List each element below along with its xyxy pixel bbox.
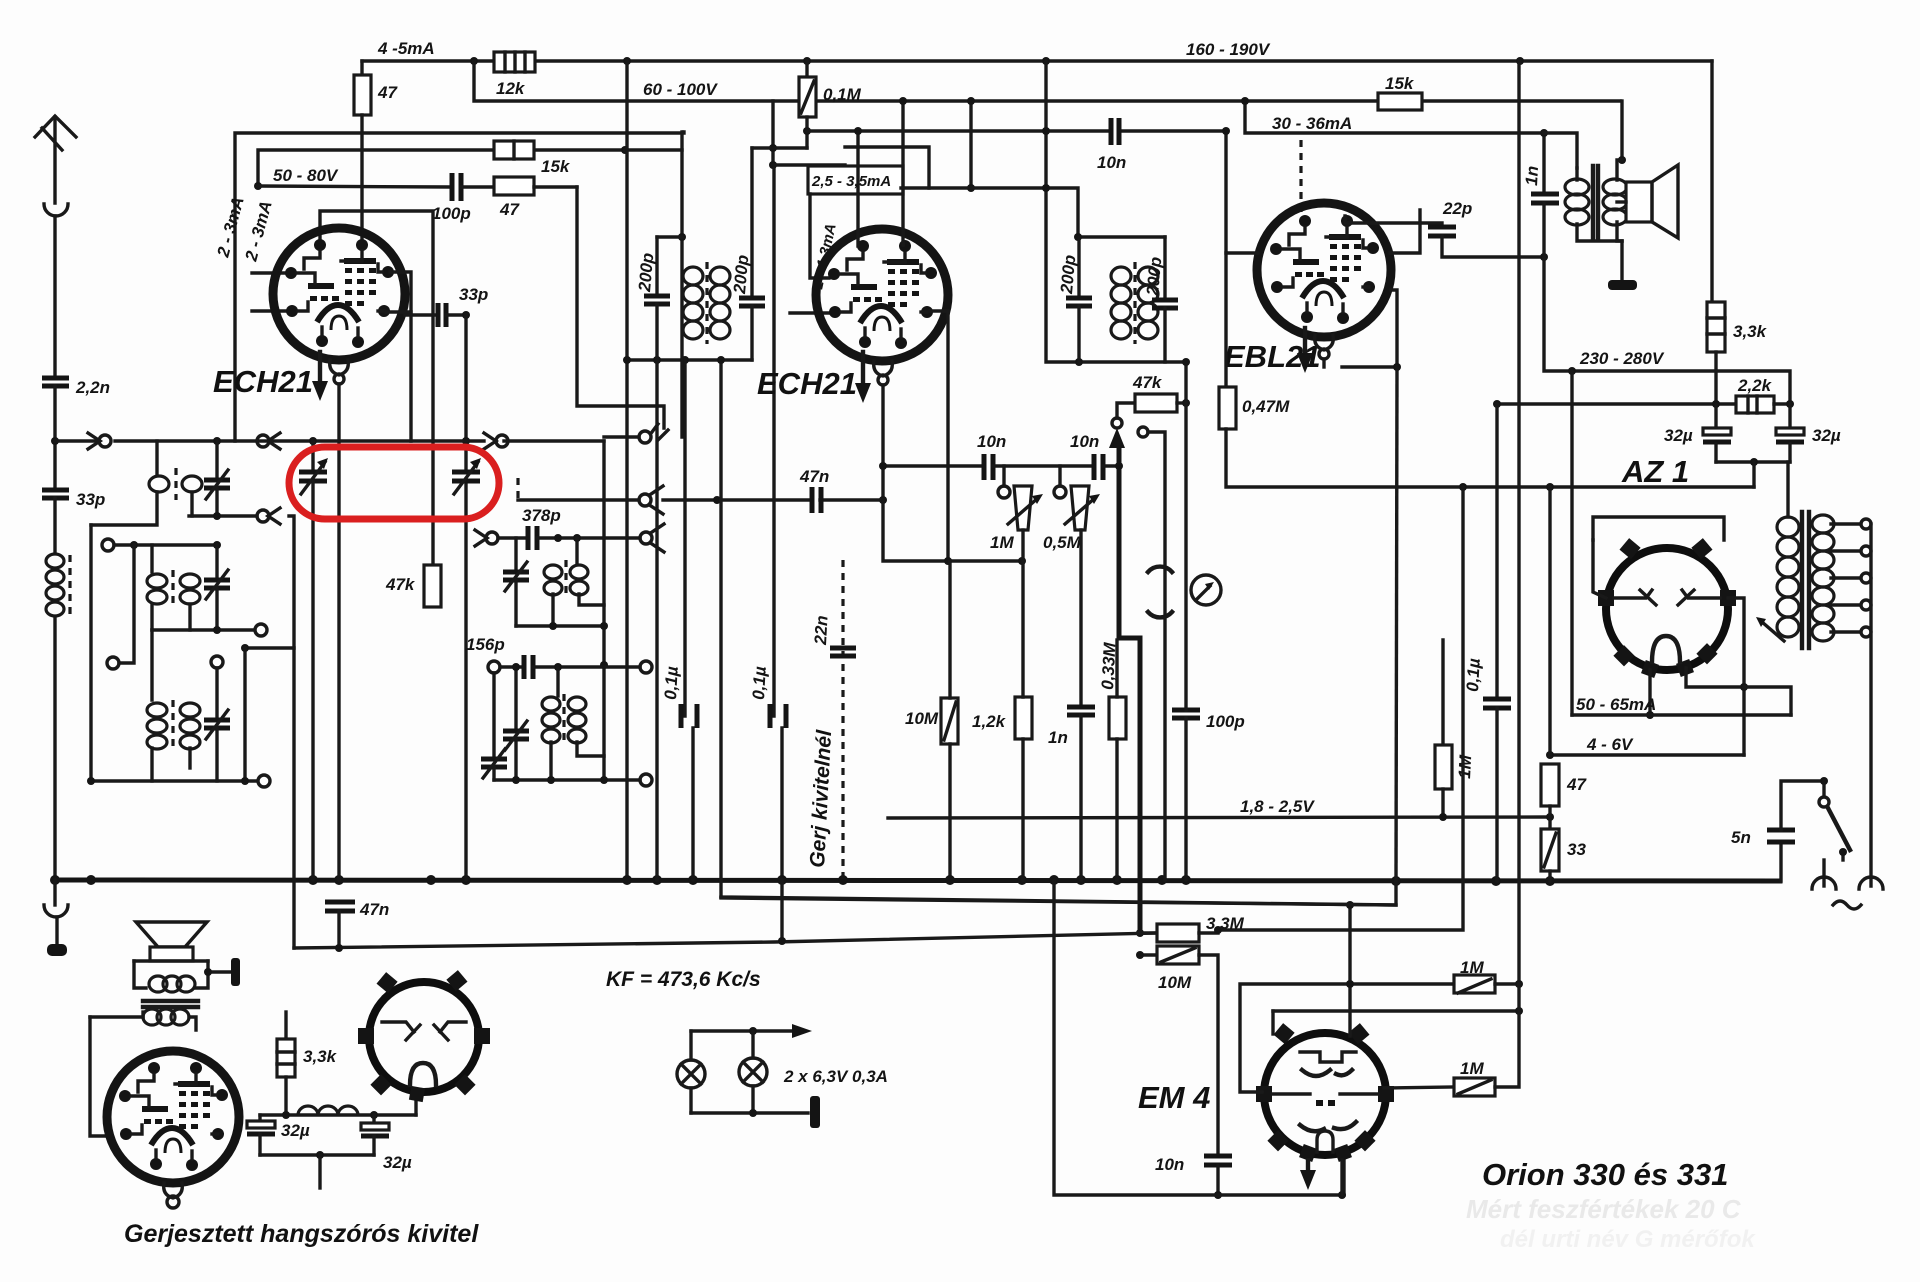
wire 47n line	[516, 478, 519, 500]
node top bus junctions	[470, 57, 478, 65]
capacitor 10n em4	[1204, 1154, 1232, 1159]
capacitor 32u d	[372, 1115, 375, 1123]
socket internals	[382, 1022, 414, 1032]
svg-text:22n: 22n	[811, 615, 832, 646]
mains terminals	[1812, 877, 1836, 889]
red highlight oval	[289, 447, 499, 519]
coil band3	[147, 703, 200, 749]
coil band1 leads	[155, 441, 158, 474]
wire OT primary feed	[1544, 133, 1577, 168]
capacitor 32u b	[1788, 404, 1791, 428]
potentiometer 1M volume	[1002, 466, 1005, 486]
svg-text:100p: 100p	[1206, 712, 1245, 731]
svg-text:10M: 10M	[905, 709, 939, 728]
tube V4 base pin	[164, 1183, 183, 1198]
wire AVC arrow	[1112, 418, 1122, 428]
svg-text:15k: 15k	[1385, 74, 1415, 93]
coil band1	[149, 476, 202, 492]
resistor 1M em4 b	[1384, 1087, 1454, 1088]
switch contact b	[257, 510, 269, 522]
svg-text:230 - 280V: 230 - 280V	[1579, 349, 1665, 368]
capacitor 10n top	[1109, 118, 1114, 145]
wire V2 top feeds	[856, 131, 859, 246]
capacitor 200p IFT1-a	[657, 235, 682, 238]
svg-text:1M: 1M	[990, 533, 1014, 552]
coil IFT1 windings	[683, 267, 730, 339]
wire osc b bottom rail	[494, 778, 640, 781]
terminal circle osc right top	[640, 661, 652, 673]
antenna symbol	[53, 117, 56, 203]
switch mains	[1822, 781, 1825, 796]
svg-text:22p: 22p	[1442, 199, 1472, 218]
tube V4 internals	[119, 1062, 228, 1171]
svg-text:EM 4: EM 4	[1138, 1080, 1210, 1115]
tube EM4 rim pins	[1256, 1023, 1394, 1162]
transformer OT output	[1565, 179, 1627, 225]
svg-text:3,3k: 3,3k	[1733, 322, 1768, 341]
svg-text:1,8 - 2,5V: 1,8 - 2,5V	[1240, 797, 1315, 816]
svg-text:160 - 190V: 160 - 190V	[1186, 40, 1271, 59]
capacitor 47n det	[810, 487, 815, 513]
tube AZ1 internals	[1614, 590, 1652, 598]
capacitor 33p antenna	[42, 488, 69, 493]
wire IFT2 plate link	[901, 188, 1165, 237]
capacitor 47n agc	[325, 900, 355, 905]
wire cathode arrow V1	[318, 352, 322, 390]
capacitor 156p	[522, 655, 527, 679]
wire V2 base down	[881, 385, 884, 500]
transformer OT2 core	[143, 999, 198, 1003]
wire AZ1 left plate lead	[1593, 540, 1606, 598]
resistor 2,2k	[1497, 402, 1736, 405]
switch contact osc3	[640, 532, 652, 544]
speaker output	[1626, 182, 1652, 222]
wire Gerj dashed	[841, 560, 844, 880]
filter choke	[260, 1113, 416, 1116]
wire box drop to pins	[810, 194, 829, 278]
coil IFT2 windings	[1111, 267, 1158, 339]
capacitor 2,2n	[42, 376, 69, 381]
wire main ground bus	[55, 880, 1780, 881]
wire mid link	[245, 646, 294, 649]
wire 60-100V drop to IFT / tube2	[771, 101, 774, 165]
trimmer band3	[215, 668, 218, 718]
terminal circle c1	[102, 539, 114, 551]
terminal circle c4	[258, 775, 270, 787]
tube V2 internals	[828, 240, 937, 349]
coil band3 leads	[150, 630, 153, 700]
wire osc section vertical	[464, 315, 467, 470]
wire below-bus return	[719, 895, 722, 898]
coil osc a	[575, 538, 578, 564]
wire osc a bottom rail	[516, 624, 604, 627]
svg-text:47k: 47k	[1132, 373, 1163, 392]
svg-text:ECH21: ECH21	[757, 366, 857, 401]
wire EM4 anode drop	[1340, 1160, 1343, 1195]
terminal circle c3	[255, 624, 267, 636]
wire field terminal	[208, 970, 231, 973]
wire choke to socket	[414, 1092, 417, 1115]
capacitor 0,1u left-a	[683, 360, 686, 716]
field coil winding	[149, 976, 195, 992]
trimmer osc b1	[514, 667, 517, 729]
capacitor 200p IFT1-b	[750, 148, 753, 296]
switch contact a1	[99, 435, 111, 447]
capacitor 32u c	[258, 1115, 261, 1121]
tube AZ1 rim pins	[1598, 538, 1736, 678]
svg-text:47: 47	[377, 83, 398, 102]
svg-text:0,47M: 0,47M	[1242, 397, 1290, 416]
switch contact a3	[484, 433, 496, 449]
wire EM4 grid loop	[1240, 984, 1452, 1092]
wire AZ1 right pin to 4-6V	[1728, 598, 1744, 755]
svg-text:2 x 6,3V 0,3A: 2 x 6,3V 0,3A	[783, 1067, 888, 1086]
wire EBL21 cathode arrow	[1303, 328, 1307, 362]
svg-text:KF = 473,6 Kc/s: KF = 473,6 Kc/s	[606, 968, 761, 991]
tube ECH21 V2 envelope	[816, 229, 948, 361]
svg-text:5n: 5n	[1731, 828, 1751, 847]
capacitor 22p	[1428, 225, 1456, 230]
svg-text:32µ: 32µ	[383, 1153, 412, 1172]
svg-text:47k: 47k	[385, 575, 416, 594]
wire V1 right pins bracket	[386, 272, 411, 312]
capacitor 5n	[1779, 842, 1782, 881]
capacitor variable RF tuning	[311, 441, 314, 470]
capacitor 0,1u left-b	[772, 165, 775, 716]
capacitor 32u a	[1714, 405, 1717, 428]
socket spare base	[369, 982, 479, 1092]
wire 230-280V line	[1544, 257, 1790, 405]
resistor 47k if	[1135, 394, 1177, 412]
svg-text:4 -5mA: 4 -5mA	[377, 39, 435, 58]
tube AZ1 envelope	[1606, 548, 1728, 670]
tube V1 internals	[285, 239, 394, 348]
wire below-bus return line	[721, 898, 1396, 905]
wire V1 osc grid line 33p	[405, 313, 434, 316]
wire EM4 target feed	[1348, 905, 1351, 1036]
trimmer band2	[215, 545, 218, 578]
node bus junctions	[50, 875, 60, 885]
wire top B+ bus	[362, 59, 1712, 62]
tube ECH21 V1 envelope	[273, 228, 405, 360]
svg-text:10n: 10n	[1155, 1155, 1184, 1174]
resistor 3,3k cath	[284, 1012, 287, 1039]
resistor 3,3k	[1710, 61, 1713, 302]
svg-text:2,2k: 2,2k	[1737, 376, 1773, 395]
wire band3 bottom rail	[91, 779, 257, 782]
tube EBL21 internals	[1270, 215, 1379, 324]
resistor 47 heater	[1541, 764, 1559, 806]
wire 50-80V screen line	[258, 186, 450, 187]
svg-text:47n: 47n	[799, 467, 829, 486]
capacitor 200p IFT2-a	[1077, 237, 1080, 296]
svg-text:0,1M: 0,1M	[823, 85, 862, 104]
svg-text:ECH21: ECH21	[213, 364, 313, 399]
trimmer band1	[215, 441, 218, 478]
wire IFT1 right feed	[680, 132, 683, 437]
capacitor 1n	[1067, 705, 1095, 710]
coil band2	[147, 574, 200, 604]
transformer OT2 secondary	[143, 1009, 189, 1025]
capacitor variable osc tuning	[452, 470, 480, 475]
svg-text:47n: 47n	[359, 900, 389, 919]
wire osc right lead	[602, 441, 605, 780]
wire IFT2 left drop	[1046, 61, 1186, 362]
svg-text:50 - 65mA: 50 - 65mA	[1576, 695, 1656, 714]
wire AZ1 plate feed	[1570, 371, 1573, 715]
wire EM4 bottom rail	[1054, 881, 1344, 1195]
wire 47 to IF drop	[534, 185, 577, 188]
wire 50-65mA line	[1572, 713, 1791, 716]
trimmer osc b2	[492, 673, 495, 757]
terminal circle osc right bottom	[640, 774, 652, 786]
coil band2 leads	[150, 545, 153, 572]
terminal circle c2	[107, 657, 119, 669]
capacitor 100p if	[1172, 708, 1200, 713]
node antenna / band rail	[51, 437, 59, 445]
tube EM4 internals	[1300, 1052, 1356, 1062]
wire EBL21 plate to 22p	[1345, 216, 1442, 223]
wire measure box outer	[235, 132, 684, 441]
switch contact a2	[257, 435, 269, 447]
wire IFT2 sec to 47k	[1184, 362, 1187, 403]
wire band2 bottom rail	[152, 628, 254, 631]
transformer adjust arrow	[1762, 622, 1784, 641]
capacitor 1n ot	[1542, 133, 1545, 192]
svg-text:100p: 100p	[432, 204, 471, 223]
svg-text:AZ 1: AZ 1	[1621, 454, 1689, 489]
resistor 12k	[494, 52, 535, 72]
svg-text:10M: 10M	[1158, 973, 1192, 992]
socket rim pins	[358, 970, 490, 1102]
wire cathode chain	[883, 500, 1022, 561]
wire 2,5-3,5mA box	[808, 166, 903, 194]
resistor 15k top right	[1378, 93, 1422, 110]
tube V1 base pin	[330, 360, 349, 375]
svg-text:200p: 200p	[1057, 254, 1079, 295]
coil antenna primary	[46, 554, 64, 616]
svg-text:3,3M: 3,3M	[1206, 914, 1245, 933]
wire band switch rail top	[55, 439, 97, 442]
svg-text:156p: 156p	[466, 635, 505, 654]
wire rail to KF line	[289, 516, 294, 948]
wire AZ1 cathode drop	[1548, 487, 1551, 755]
svg-text:0,5M: 0,5M	[1043, 533, 1082, 552]
tube EBL21 base pin	[1315, 335, 1334, 350]
tube EM4 envelope	[1264, 1033, 1386, 1155]
capacitor 10n b	[1092, 454, 1097, 480]
resistor 47 anode	[360, 61, 363, 75]
resistor 47k osc grid leak	[424, 565, 441, 607]
wire IFT1 sec bottom drops	[655, 360, 658, 880]
wire EBL21 right pins	[1390, 210, 1420, 253]
wire V1 left pin stubs	[252, 271, 285, 274]
svg-text:32µ: 32µ	[281, 1121, 310, 1140]
resistor 10M grid	[1140, 953, 1157, 956]
wire V2 right pin loop	[930, 311, 948, 561]
wire measure box inner / 15k line	[258, 150, 494, 186]
svg-text:200p: 200p	[730, 254, 752, 295]
svg-text:3,3k: 3,3k	[303, 1047, 338, 1066]
svg-text:12k: 12k	[496, 79, 526, 98]
wire 47k line	[1117, 403, 1135, 418]
wire 4-6V line	[1550, 753, 1744, 756]
svg-text:1M: 1M	[1460, 958, 1484, 977]
svg-text:47: 47	[1566, 775, 1587, 794]
wire primary top to B+?	[1786, 462, 1789, 517]
capacitor 22n	[830, 646, 856, 651]
resistor 1M bias	[1441, 640, 1444, 745]
capacitor 33p osc	[436, 303, 441, 327]
svg-text:15k: 15k	[541, 157, 571, 176]
resistor 15k left	[494, 141, 534, 159]
wire KF rail	[294, 933, 1157, 948]
wire mains right vertical	[1869, 524, 1872, 886]
wire 32u join	[1716, 460, 1790, 463]
resistor 33 heater	[1541, 829, 1559, 871]
wire left common down	[89, 525, 92, 780]
svg-text:33: 33	[1567, 840, 1586, 859]
wire dashed stub to EBL21 g	[1299, 140, 1302, 216]
resistor 0,47M	[1224, 253, 1227, 387]
svg-text:4 - 6V: 4 - 6V	[1586, 735, 1634, 754]
wire 0,1u right	[1495, 404, 1498, 697]
wire det circle stub	[1138, 427, 1148, 437]
resistor 1M em4 a	[1454, 975, 1495, 993]
wire 0,1M to 10n rail	[803, 127, 811, 135]
wire EM4 cathode arrow	[1306, 1160, 1310, 1178]
wire IFT1 left rail	[627, 61, 752, 360]
transformer mains primary	[1777, 515, 1834, 641]
lamps dial	[691, 1029, 800, 1032]
wire 30-36mA box line	[1245, 101, 1544, 133]
svg-text:33p: 33p	[459, 285, 488, 304]
switch contact det	[639, 494, 651, 506]
meter symbol	[1191, 575, 1221, 605]
wire screen drop x971	[969, 101, 972, 188]
capacitor 10n a	[982, 454, 987, 480]
svg-text:2,5 - 3,5mA: 2,5 - 3,5mA	[811, 173, 891, 190]
wire 100p to 47	[461, 185, 494, 188]
wire antenna to ground bus	[53, 617, 56, 880]
resistor 3,3M	[1140, 931, 1157, 934]
svg-text:1n: 1n	[1522, 165, 1542, 186]
tube EBL21 envelope	[1257, 203, 1391, 337]
svg-text:Mért feszfértékek 20 C: Mért feszfértékek 20 C	[1466, 1194, 1742, 1224]
resistor 0,33M	[1109, 697, 1126, 739]
ground chassis below antenna	[44, 905, 68, 917]
svg-text:50 - 80V: 50 - 80V	[273, 166, 339, 185]
wire EM4 1M line a	[1346, 980, 1354, 988]
resistor 10M	[941, 698, 958, 744]
tuning indicator shadow	[1148, 567, 1172, 572]
wire c1 drop	[119, 545, 134, 663]
tube output V4 envelope	[107, 1051, 239, 1183]
wire IFT2 feed drop	[721, 360, 1396, 905]
potentiometer 0,5M tone	[1058, 466, 1061, 486]
svg-text:47: 47	[499, 200, 520, 219]
svg-text:Orion 330 és 331: Orion 330 és 331	[1482, 1157, 1728, 1192]
capacitor 100p	[450, 173, 455, 201]
svg-text:30 - 36mA: 30 - 36mA	[1272, 114, 1352, 133]
svg-text:2,2n: 2,2n	[75, 378, 110, 397]
svg-text:0,1µ: 0,1µ	[749, 666, 770, 701]
speaker frame	[134, 961, 146, 988]
wire det return right	[1218, 487, 1463, 930]
wire OT secondary feed	[1620, 101, 1623, 160]
wire B+ long vertical to EM4 1M	[1517, 61, 1520, 985]
wire 1,8-2,5V line	[888, 817, 1550, 818]
svg-text:10n: 10n	[1097, 153, 1126, 172]
coil osc b	[556, 667, 559, 696]
svg-text:10n: 10n	[977, 432, 1006, 451]
svg-text:Gerjesztett hangszórós kivitel: Gerjesztett hangszórós kivitel	[124, 1220, 479, 1248]
wire V1 base to bus	[337, 384, 340, 880]
svg-text:1M: 1M	[1460, 1059, 1484, 1078]
svg-text:0,1µ: 0,1µ	[661, 666, 682, 701]
wire grid box	[320, 211, 433, 565]
switch contact osc1	[486, 532, 498, 544]
wire 60-100V rail	[474, 61, 1620, 101]
capacitor 200p IFT2-b	[1163, 237, 1166, 298]
svg-text:10n: 10n	[1070, 432, 1099, 451]
wire band1 bottom rail	[189, 514, 257, 517]
wire EBL21 grid feed	[1226, 131, 1258, 253]
wire 32u bottom link	[260, 1153, 374, 1156]
speaker field horn	[136, 922, 207, 947]
wire volume line 10n	[883, 464, 982, 467]
resistor 1,2k	[1015, 697, 1032, 739]
svg-text:200p: 200p	[635, 252, 657, 293]
svg-text:1M: 1M	[1455, 754, 1475, 779]
wire AZ1 filament bottom	[1648, 670, 1651, 715]
wire osc wiper top	[577, 187, 664, 428]
wire EM4 grid line b	[1273, 1009, 1519, 1012]
wire cathode arrow V2	[861, 352, 865, 392]
wire OT2 to tube loop	[90, 1015, 143, 1018]
transformer mains core	[1800, 512, 1804, 648]
svg-text:32µ: 32µ	[1812, 426, 1841, 445]
resistor 47 screen	[494, 177, 534, 195]
transformer taps	[1831, 522, 1860, 525]
svg-text:200p: 200p	[1143, 256, 1165, 297]
wire speaker to ground blob	[1620, 241, 1623, 280]
svg-text:32µ: 32µ	[1664, 426, 1693, 445]
svg-text:1n: 1n	[1048, 728, 1068, 747]
svg-text:1,2k: 1,2k	[972, 712, 1007, 731]
trimmer osc a	[514, 538, 517, 570]
svg-text:33p: 33p	[76, 490, 105, 509]
svg-text:0,1µ: 0,1µ	[1463, 658, 1484, 693]
svg-text:dél urti név G mérőfok: dél urti név G mérőfok	[1500, 1226, 1756, 1253]
tube V2 base pin	[874, 361, 893, 376]
resistor 0,1M	[805, 61, 808, 77]
svg-text:60 - 100V: 60 - 100V	[643, 80, 718, 99]
svg-text:378p: 378p	[522, 506, 561, 525]
terminal circle osc top	[488, 661, 500, 673]
capacitor 378p	[526, 526, 531, 550]
